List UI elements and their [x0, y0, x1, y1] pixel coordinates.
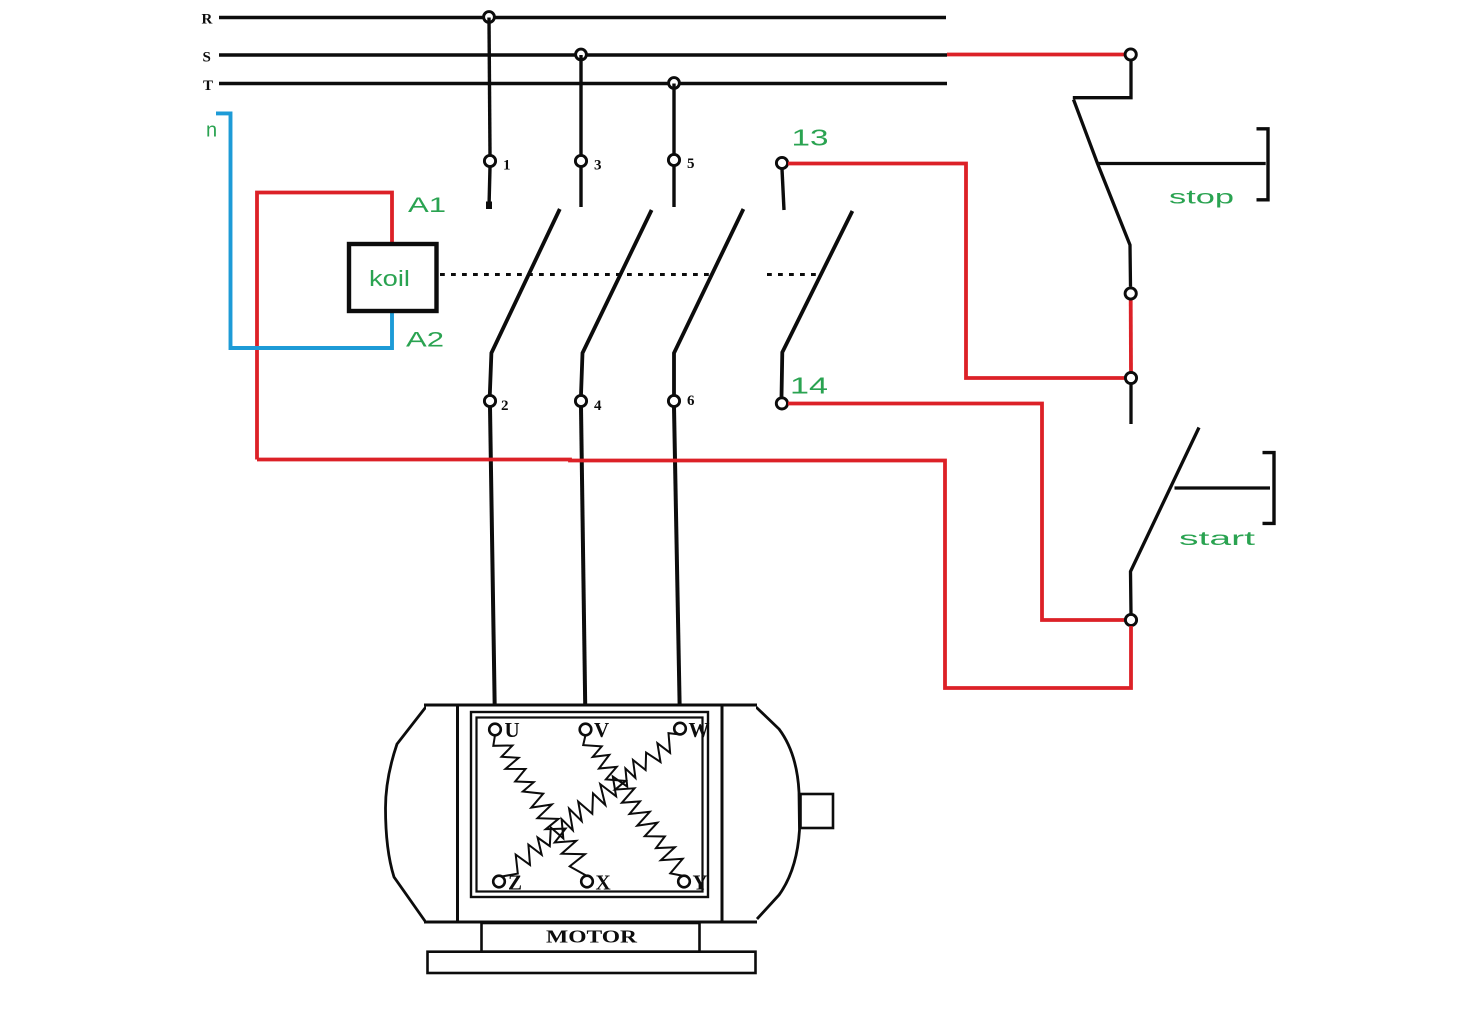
motor body [424, 705, 757, 922]
terminal 2 [484, 395, 495, 406]
contactor pole lead below terminal 5 [672, 166, 675, 207]
motor terminal Z [493, 876, 505, 888]
wire red common bottom [257, 460, 1131, 689]
power line T [219, 82, 947, 85]
svg-text:Y: Y [693, 871, 708, 895]
dashed linkage aux contact [767, 273, 818, 276]
start button actuator [1175, 486, 1271, 489]
start button terminal bottom [1125, 614, 1136, 625]
svg-text:5: 5 [687, 156, 695, 172]
stop button terminal bottom [1125, 288, 1136, 299]
stop button bracket [1257, 129, 1269, 200]
wire R drop to contact 1 [489, 18, 490, 156]
svg-text:Z: Z [508, 871, 522, 895]
svg-text:6: 6 [687, 393, 695, 409]
wire S drop to contact 3 [579, 55, 582, 155]
stop button terminal top [1125, 49, 1136, 60]
svg-text:start: start [1179, 529, 1256, 550]
winding U-X [493, 735, 587, 876]
motor terminal V [580, 724, 592, 736]
contactor blade 5-6 [674, 209, 743, 395]
svg-text:V: V [594, 718, 609, 742]
wire contact 2 to motor U [490, 407, 495, 726]
motor terminal box outer [471, 712, 708, 897]
wire contact 6 to motor W [674, 407, 680, 725]
terminal 5 [668, 154, 679, 165]
dashed linkage main contacts [440, 273, 712, 276]
contactor blade 3-4 [581, 210, 652, 395]
svg-text:1: 1 [503, 158, 511, 174]
power line S [219, 53, 947, 56]
svg-text:MOTOR: MOTOR [546, 927, 638, 947]
terminal 4 [575, 395, 586, 406]
terminal 6 [668, 395, 679, 406]
coil box koil [349, 244, 437, 311]
svg-text:4: 4 [594, 398, 602, 414]
node junction on T [669, 78, 680, 89]
terminal 13 [776, 157, 787, 168]
contactor pole lead below terminal 1 [489, 167, 490, 207]
motor pedestal [482, 923, 700, 952]
junction stop-start terminal [1125, 372, 1136, 383]
svg-text:2: 2 [501, 398, 509, 414]
motor left end cap [386, 706, 428, 923]
node junction on S [576, 49, 587, 60]
contactor pole lead below terminal 3 [579, 167, 582, 207]
svg-text:S: S [203, 50, 211, 66]
wire contact 4 to motor V [581, 407, 586, 726]
terminal 3 [575, 155, 586, 166]
svg-text:koil: koil [369, 266, 410, 291]
node junction on R [484, 12, 495, 23]
stop button top lead [1073, 60, 1131, 98]
start button bracket [1263, 453, 1275, 524]
motor terminal X [581, 876, 593, 888]
motor terminal box inner [477, 718, 703, 892]
svg-text:14: 14 [790, 373, 828, 399]
wire red from S rail to stop button [947, 53, 1125, 57]
svg-text:A1: A1 [408, 194, 446, 217]
stop button blade [1074, 100, 1131, 287]
terminal 14 [776, 398, 787, 409]
svg-text:W: W [689, 718, 710, 742]
wire red stop button to junction [1129, 299, 1133, 372]
motor terminal W [674, 723, 686, 735]
svg-text:U: U [505, 718, 520, 742]
terminal 1 [484, 155, 495, 166]
motor terminal Y [678, 876, 690, 888]
svg-text:A2: A2 [406, 329, 444, 352]
aux contact blade 13-14 [782, 211, 853, 397]
motor base [428, 952, 756, 973]
svg-text:stop: stop [1169, 188, 1234, 209]
winding W-Z [499, 733, 680, 877]
motor right end cap [756, 707, 800, 919]
svg-text:13: 13 [792, 125, 829, 151]
winding V-Y [583, 735, 684, 876]
motor shaft [801, 794, 834, 828]
stop button actuator [1098, 162, 1266, 165]
svg-text:3: 3 [594, 158, 602, 174]
svg-text:T: T [203, 78, 213, 94]
wire red A1 from koil [257, 193, 392, 460]
wire T drop to contact 5 [672, 84, 675, 155]
wire red from terminal 14 to start button [788, 404, 1125, 621]
svg-text:R: R [202, 12, 213, 28]
contactor blade 1-2 [490, 209, 560, 395]
svg-text:X: X [596, 871, 611, 895]
motor terminal U [489, 724, 501, 736]
start button blade [1131, 428, 1200, 615]
power line R [219, 16, 946, 19]
wire black junction down [1129, 384, 1132, 424]
wire red from terminal 13 to stop/start junction [788, 164, 1125, 379]
aux contact lead below terminal 13 [782, 169, 784, 210]
wire blue neutral n [216, 113, 392, 348]
svg-text:n: n [206, 120, 217, 142]
